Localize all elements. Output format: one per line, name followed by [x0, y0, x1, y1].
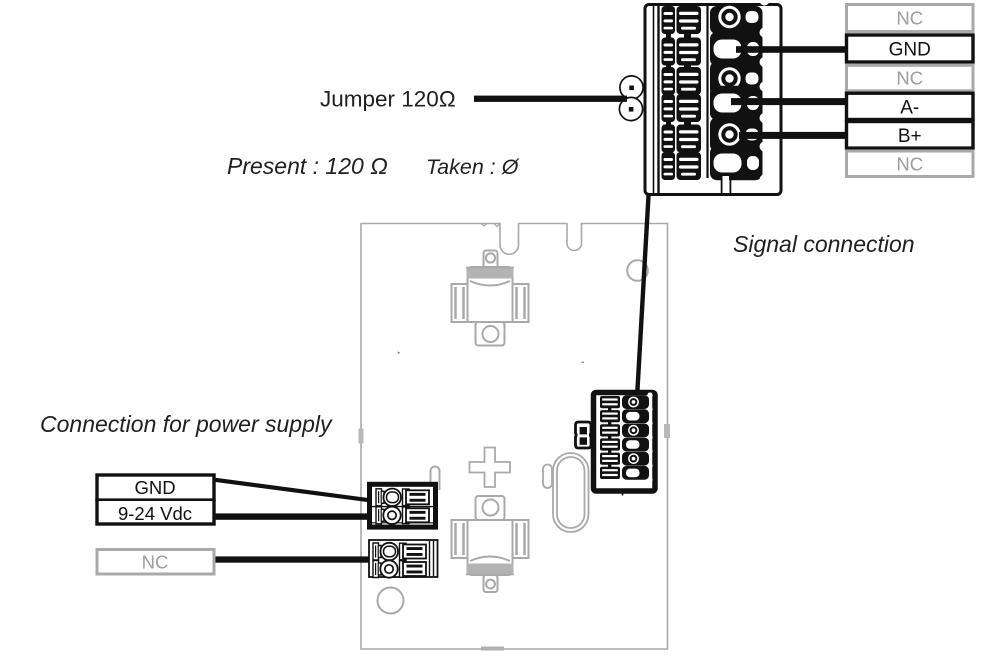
svg-text:NC: NC [896, 68, 923, 89]
wire: connector to A- label [731, 98, 849, 105]
test cross marker (gray plus) [470, 448, 511, 488]
signal connector J1 slot, position 6 [600, 467, 620, 479]
svg-text:GND: GND [889, 40, 931, 61]
buzzer/stadium ring (gray) [553, 453, 589, 532]
connector J2 wire clamp, position 6 [662, 152, 702, 180]
label box B+ [847, 122, 974, 149]
power connector J3 terminal 2 [376, 507, 429, 524]
svg-text:NC: NC [142, 551, 169, 572]
connector J2 screw cage, position 6 [710, 142, 770, 185]
wire: NC label to spare connector [216, 556, 370, 562]
svg-text:Taken : Ø: Taken : Ø [426, 155, 520, 179]
jumper 120R symbol (two pin circles) [619, 76, 643, 121]
signal connector J1 (highlighted, thick border) [594, 393, 656, 492]
connector J2 bottom key notch [723, 176, 730, 193]
connector J2 screw cage, position 2 [710, 28, 770, 71]
signal connector J1 screw, position 2 [622, 407, 653, 426]
bottom edge connector pad [481, 647, 504, 651]
svg-text:Connection for power supply: Connection for power supply [40, 411, 333, 437]
signal connector J1 screw, position 4 [622, 435, 653, 454]
PCB mounting hole (top right) [627, 260, 648, 281]
connector J2 left flange line [653, 5, 655, 194]
svg-text:A-: A- [900, 97, 919, 118]
right edge pads [664, 424, 670, 438]
component M1 (top motor/solenoid, gray) [452, 251, 529, 346]
connector J2 screw cage, position 5 [710, 113, 770, 156]
connector J2 body left edge [657, 5, 659, 194]
spare connector J4 (thin border) [369, 540, 438, 577]
svg-text:B+: B+ [898, 126, 922, 147]
signal connector J1 slot, position 1 [600, 396, 620, 410]
signal connector J1 slot, position 5 [600, 453, 620, 467]
power connector J3 terminal 1 [376, 489, 429, 506]
PCB mounting hole (bottom left) [378, 588, 404, 614]
svg-text:Present : 120 Ω: Present : 120 Ω [227, 153, 388, 179]
wire: 9-24 Vdc label to power connector [216, 513, 369, 519]
connector J2 wire clamp, position 1 [662, 6, 702, 40]
connector J2 screw cage, position 1 [710, 0, 770, 39]
jumper block JP1 (2-pin) [576, 422, 592, 448]
label box NC (grey) at y=4.5 [847, 5, 974, 32]
svg-text:NC: NC [896, 8, 923, 29]
label box NC (grey) at y=151.0 [847, 151, 974, 177]
connector J2 screw cage, position 3 [710, 57, 770, 100]
power connector J3 (highlighted, thick border) [370, 484, 436, 527]
signal connector J1 slot, position 2 [600, 410, 620, 424]
small pill left of stadium [543, 465, 552, 489]
connector J2 wire clamp, position 4 [662, 94, 702, 128]
signal connector J1 slot, position 3 [600, 424, 620, 438]
signal connector J1 screw, position 5 [622, 449, 653, 468]
tiny speck left [398, 352, 401, 355]
tiny speck right [582, 362, 585, 364]
wire: connector to GND label [736, 46, 849, 53]
signal connector J1 slot, position 4 [600, 438, 620, 452]
component M2 (bottom motor/solenoid, gray) [452, 496, 529, 592]
signal connector J1 bottom pin line [622, 490, 624, 496]
PCB board outline with two top notches [361, 224, 668, 650]
connector J2 wire clamp, position 2 [662, 38, 702, 72]
wire: connector J2 to PCB signal connector [635, 194, 651, 391]
svg-text:Signal connection: Signal connection [733, 231, 915, 257]
label box A- [847, 93, 974, 119]
connector J2 6-pin plug (side view) [645, 0, 781, 195]
spare connector J4 terminal 1 [373, 543, 426, 560]
connector J2 clamp/screw column separator [706, 6, 708, 178]
svg-text:9-24 Vdc: 9-24 Vdc [118, 503, 192, 524]
left edge pads [359, 429, 364, 444]
connector J2 wire clamp, position 5 [662, 125, 702, 159]
svg-text:Jumper 120Ω: Jumper 120Ω [320, 87, 456, 112]
label box NC (power, grey) [97, 550, 214, 575]
signal connector J1 screw, position 1 [622, 392, 653, 411]
signal connector J1 screw, position 6 [622, 463, 653, 482]
label box GND [847, 35, 974, 62]
connector J2 screw cage, position 4 [710, 82, 770, 125]
wire: Jumper label pointer [474, 96, 627, 102]
spare connector J4 terminal 2 [373, 560, 426, 577]
svg-text:NC: NC [896, 153, 923, 174]
signal connector J1 screw, position 3 [622, 421, 653, 440]
label box GND / 9-24 Vdc [97, 475, 214, 524]
PCB top edge nicks [481, 224, 500, 227]
wire: connector to B+ label [739, 132, 849, 139]
connector J2 wire clamp, position 3 [662, 67, 702, 101]
svg-text:GND: GND [134, 477, 175, 498]
small pill above power connector [431, 467, 440, 491]
label box NC (grey) at y=65.3 [847, 65, 974, 91]
wire: GND label to power connector (diagonal) [216, 478, 371, 503]
